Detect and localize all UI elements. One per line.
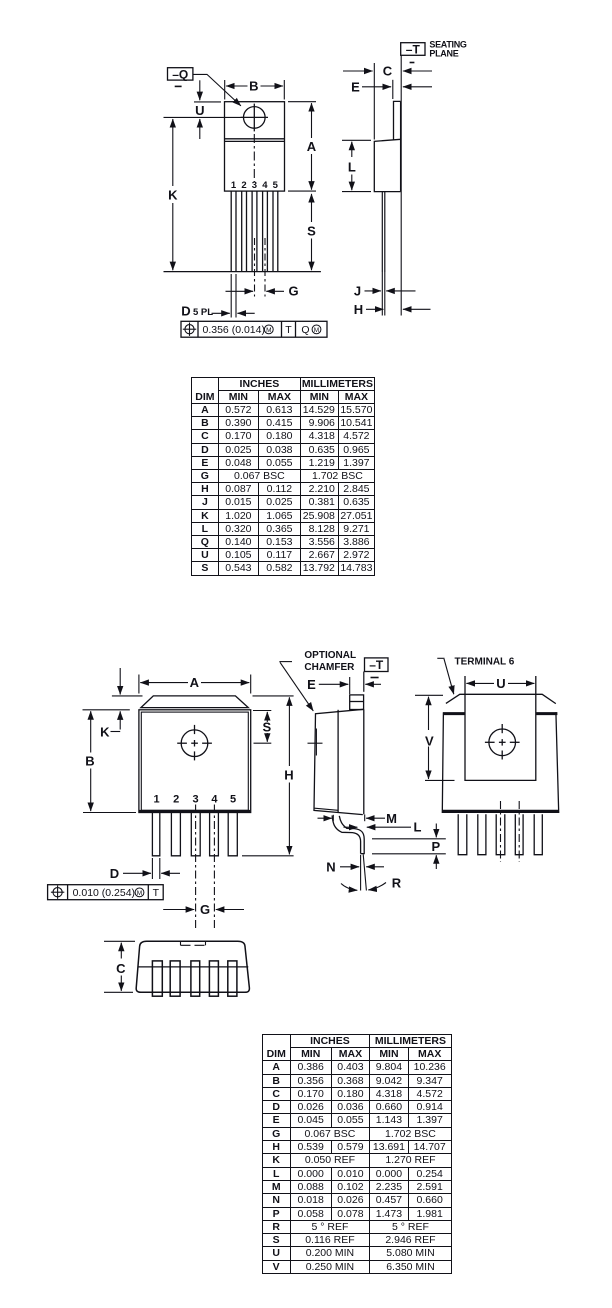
svg-text:A: A <box>307 139 317 154</box>
svg-text:L: L <box>348 159 356 174</box>
svg-text:B: B <box>249 79 258 94</box>
svg-text:T: T <box>153 887 160 899</box>
seating/back face datum line <box>363 672 365 692</box>
svg-text:U: U <box>195 103 204 118</box>
svg-text:V: V <box>425 733 434 748</box>
pin 4 <box>210 813 219 856</box>
svg-text:E: E <box>351 79 360 94</box>
svg-text:3: 3 <box>193 794 199 806</box>
body bottom serrated band <box>140 810 251 813</box>
svg-text:D: D <box>110 866 119 881</box>
svg-text:0.356 (0.014): 0.356 (0.014) <box>203 324 265 336</box>
svg-text:G: G <box>200 902 210 917</box>
lead extension lines <box>382 272 385 316</box>
svg-text:S: S <box>262 720 271 735</box>
back pin 1 <box>458 814 467 855</box>
svg-text:R: R <box>392 875 402 890</box>
pin numbers 1-5 <box>153 794 236 806</box>
dimension N <box>340 866 384 868</box>
svg-text:L: L <box>414 820 422 835</box>
bottom view pin 4 <box>209 961 218 996</box>
body outer rect <box>139 710 251 813</box>
back pin 5 <box>534 814 542 855</box>
svg-text:TERMINAL 6: TERMINAL 6 <box>455 656 515 667</box>
back pin 3 centerline <box>500 801 502 862</box>
dimension A <box>288 102 316 191</box>
pin 5 <box>273 191 278 272</box>
body inner rect <box>141 712 248 810</box>
lead side view <box>382 192 385 272</box>
svg-text:A: A <box>190 675 200 690</box>
pin tip baseline <box>164 271 321 273</box>
dimension V <box>415 695 455 780</box>
svg-text:4: 4 <box>262 180 268 191</box>
dimension M <box>318 815 386 822</box>
leader to terminal 6 <box>437 658 454 694</box>
dimension K <box>111 668 143 732</box>
svg-text:H: H <box>284 768 293 783</box>
svg-text:4: 4 <box>211 794 218 806</box>
svg-text:N: N <box>326 859 335 874</box>
svg-text:K: K <box>168 188 178 203</box>
datum box -Q <box>168 68 193 87</box>
seating plane datum line <box>400 55 402 315</box>
pin 4 centerline <box>264 238 266 297</box>
back view outer edges and bottom <box>442 712 558 812</box>
pin 3 <box>191 813 200 856</box>
pin 1 <box>231 191 236 272</box>
pin 4 centerline <box>213 805 215 930</box>
dimension G <box>163 909 244 911</box>
hole horizontal centerline <box>164 116 244 118</box>
dimension H <box>242 696 294 856</box>
svg-text:–Q: –Q <box>172 67 188 81</box>
svg-text:S: S <box>307 223 316 238</box>
svg-text:G: G <box>288 284 298 299</box>
package body front view <box>225 102 285 191</box>
svg-text:1: 1 <box>153 794 159 806</box>
pin 2 <box>171 813 180 856</box>
bottom view pin 1 <box>152 961 162 996</box>
svg-text:T: T <box>285 324 292 336</box>
SEATING PLANE label <box>429 40 467 59</box>
feature control frame: true position 0.356 (0.014) M | T | Q M <box>181 321 327 337</box>
svg-text:5: 5 <box>230 794 236 806</box>
back body bottom thick line <box>442 810 558 812</box>
back pin 3 <box>496 814 505 855</box>
dimension L <box>344 826 412 828</box>
dimension K <box>172 119 174 270</box>
mounting hole Q <box>241 104 268 132</box>
svg-text:C: C <box>383 64 393 79</box>
dimension E <box>319 677 381 694</box>
dimension A <box>139 675 251 694</box>
dimension C <box>104 941 135 992</box>
tab side profile <box>350 695 364 710</box>
svg-text:C: C <box>116 961 126 976</box>
true position symbol <box>183 323 196 336</box>
body front extension line <box>373 63 375 140</box>
bottom view outline <box>136 941 249 992</box>
dimension P arrows <box>435 824 437 870</box>
dimension C <box>343 70 432 72</box>
dimension H <box>366 308 431 310</box>
svg-text:5: 5 <box>273 180 279 191</box>
back pin 2 <box>478 814 486 855</box>
svg-text:1: 1 <box>231 180 237 191</box>
hole centerline marks <box>177 725 212 761</box>
svg-text:B: B <box>85 754 94 769</box>
dimension B <box>83 711 136 812</box>
svg-text:OPTIONAL: OPTIONAL <box>304 650 356 661</box>
svg-text:CHAMFER: CHAMFER <box>304 662 355 673</box>
svg-text:E: E <box>307 677 316 692</box>
svg-text:0.010 (0.254): 0.010 (0.254) <box>73 887 135 899</box>
leader from -Q to hole <box>193 74 241 106</box>
tab side profile <box>394 101 401 140</box>
datum box -T <box>365 658 389 678</box>
pin 2 <box>242 191 247 272</box>
back pin 4 <box>515 814 523 855</box>
back pin 4 centerline <box>518 801 520 862</box>
dimension S <box>311 194 313 270</box>
dimension L <box>342 140 371 191</box>
mounting hole <box>181 730 208 757</box>
svg-text:–T: –T <box>406 42 421 56</box>
dimension E <box>362 80 432 99</box>
dimension D <box>123 872 180 874</box>
svg-text:K: K <box>100 724 110 739</box>
tab/body boundary double line <box>225 139 285 142</box>
gull-wing lead <box>332 815 364 853</box>
svg-text:H: H <box>354 302 363 317</box>
svg-text:P: P <box>431 839 440 854</box>
bottom view pin 2 <box>170 961 180 996</box>
svg-text:J: J <box>354 283 361 298</box>
dimension B <box>225 80 285 100</box>
pin 3 centerline <box>195 805 197 930</box>
svg-text:2: 2 <box>241 180 246 191</box>
body side profile <box>314 709 364 814</box>
dimension U <box>194 80 221 139</box>
pin 3 <box>252 191 257 272</box>
svg-text:U: U <box>496 676 505 691</box>
optional chamfer mark on front face <box>308 729 323 756</box>
chamfer cap <box>141 696 248 708</box>
datum box -T <box>401 43 425 63</box>
svg-text:M: M <box>386 811 397 826</box>
dimension J <box>365 290 416 292</box>
dimension R angle arcs <box>341 883 386 891</box>
pin 4 <box>263 191 268 272</box>
dimension U <box>466 682 534 684</box>
feature control frame: true position 0.010 (0.254) M | T <box>48 885 164 900</box>
svg-text:D: D <box>181 303 190 318</box>
dimension D 5 PL <box>212 312 255 314</box>
bottom view pin 5 <box>228 961 237 996</box>
svg-text:–T: –T <box>369 658 384 672</box>
svg-text:3: 3 <box>252 180 257 191</box>
pin numbers 1-5 <box>231 180 279 191</box>
bottom view pin 3 <box>191 961 200 996</box>
dimension G <box>226 290 285 292</box>
pin1 extension lines for D <box>152 858 159 879</box>
leader to chamfer <box>279 662 313 711</box>
pin 3 centerline <box>254 238 256 297</box>
svg-text:5 PL: 5 PL <box>193 307 213 318</box>
body side profile <box>374 101 400 191</box>
svg-text:Q: Q <box>301 324 309 336</box>
TERMINAL 6 label <box>455 656 515 667</box>
pin1 edge extension lines for D <box>231 274 236 318</box>
OPTIONAL CHAMFER label <box>304 650 356 673</box>
tab edge thick bars <box>443 712 557 715</box>
pin 1 <box>152 813 159 856</box>
true position symbol <box>51 886 64 899</box>
lead tip extension and 5 deg tip line <box>361 854 367 890</box>
dimension table 1 <box>191 377 375 576</box>
hidden edge dashes on top <box>181 942 206 946</box>
back view outline top <box>446 694 556 703</box>
svg-text:PLANE: PLANE <box>429 49 458 59</box>
dimension P lines <box>372 839 446 854</box>
step line across bottom view <box>138 966 249 968</box>
dimension table 2 <box>262 1034 452 1274</box>
tab inner outline / terminal 6 edges <box>465 676 536 780</box>
dimension S <box>253 711 271 744</box>
back hole <box>489 729 516 756</box>
hole vertical centerline <box>253 134 255 182</box>
body top extension line <box>83 709 130 711</box>
svg-text:2: 2 <box>173 794 179 806</box>
pin 5 <box>228 813 237 856</box>
back hole centerline marks <box>485 724 520 760</box>
